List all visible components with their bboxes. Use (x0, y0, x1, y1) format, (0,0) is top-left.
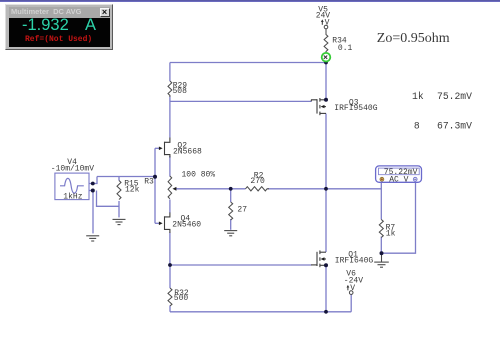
wire R15 bottom lead (118, 201, 120, 217)
wire V4 minus to ground (92, 191, 94, 234)
node R7 ground (380, 251, 384, 255)
transistor Q4 2N5460 (159, 213, 170, 234)
wire R32 top lead (169, 265, 171, 288)
wire V4 plus jog (89, 177, 97, 184)
wire V4 minus to R15 bottom (97, 191, 120, 207)
ground (V4 minus) (86, 236, 99, 241)
transistor Q3 IRFI9540G (311, 98, 326, 115)
svg-text:270: 270 (250, 177, 265, 186)
wire R7 bottom lead (380, 237, 382, 253)
wire R29 bottom to Q2 drain (169, 97, 171, 138)
svg-text:0.1: 0.1 (338, 44, 353, 53)
wire Q4 source down (169, 233, 171, 266)
node Q1 source (324, 263, 328, 267)
wire V4 minus stub (89, 190, 93, 192)
wire R3 bottom to Q4 drain (169, 200, 171, 214)
power V6 terminal circle (349, 291, 353, 295)
top window blue bar (0, 0, 500, 2)
wire top rail (170, 62, 326, 64)
svg-text:2N5460: 2N5460 (172, 221, 201, 230)
svg-text:IRFI9540G: IRFI9540G (334, 104, 377, 113)
wire node Q4source-Q1gate (170, 264, 312, 266)
wire R32 bottom lead (169, 306, 171, 312)
schematic text labels (51, 5, 396, 302)
R3 wiper arrow (173, 187, 177, 191)
svg-text:V: V (325, 18, 330, 27)
svg-text:75.2mV: 75.2mV (437, 91, 472, 102)
svg-text:1k: 1k (412, 91, 424, 102)
AC source V4 (55, 173, 89, 200)
resistor 27 (229, 202, 233, 220)
junction node dots (91, 61, 384, 314)
svg-text:12k: 12k (125, 186, 140, 195)
svg-text:R3: R3 (144, 178, 154, 187)
svg-text:67.3mV: 67.3mV (437, 120, 472, 131)
resistor R29 508 (168, 81, 172, 97)
resistor R32 500 (168, 288, 172, 306)
wire R3 wiper to R2 (176, 188, 246, 190)
wire R15 top lead (118, 177, 120, 181)
wire main bus probe to Q3 (325, 63, 327, 100)
svg-text:8: 8 (414, 120, 420, 131)
node Q3 drain (324, 98, 328, 102)
transistor Q1 IRFI640G (311, 250, 326, 267)
wire R29 top lead (169, 63, 171, 82)
wire output node to voltmeter (326, 188, 381, 190)
svg-text:V: V (350, 284, 355, 293)
node R32 top (168, 263, 172, 267)
svg-text:IRFI640G: IRFI640G (335, 257, 374, 266)
power V5 arrow (321, 19, 324, 24)
node gate bus (153, 175, 157, 179)
wire main bus Q3 to Q1 (325, 114, 327, 253)
node resistor27 top (229, 187, 233, 191)
svg-text:100 80%: 100 80% (182, 170, 216, 179)
wire voltmeter minus lead (382, 183, 416, 254)
power V6 arrow (347, 285, 350, 290)
resistor R34 0.1 (324, 29, 328, 54)
svg-text:2N5668: 2N5668 (173, 148, 202, 157)
wire node R29-Q3gate (170, 100, 312, 102)
svg-text:1k: 1k (386, 230, 396, 239)
wire resistor27 bottom lead (230, 219, 232, 230)
svg-text:Zo=0.95ohm: Zo=0.95ohm (377, 31, 450, 46)
wire R2 to bus (268, 188, 327, 190)
wire V6 lead (350, 294, 352, 312)
wire Q4 gate stub (155, 222, 159, 224)
wire main bus Q1 to bottom rail (325, 265, 327, 312)
wire resistor27 top lead (230, 189, 232, 202)
resistor R2 270 (246, 187, 270, 191)
wire Q2 gate stub (155, 147, 159, 149)
node bottom rail (324, 310, 328, 314)
svg-text:500: 500 (174, 294, 189, 303)
svg-text:-10m/10mV: -10m/10mV (51, 164, 94, 173)
power V5 terminal circle (324, 25, 328, 29)
transistor Q2 2N5668 (159, 138, 170, 158)
voltmeter 75.22mV AC V (376, 166, 422, 185)
ground (resistor 27) (224, 231, 237, 236)
ground (R7 / voltmeter return) (374, 255, 389, 268)
wire bottom rail (170, 311, 351, 313)
svg-text:508: 508 (173, 87, 188, 96)
node V4 plus (91, 182, 95, 186)
node output (324, 187, 328, 191)
multimeter instrument window (5, 4, 113, 50)
svg-text:AC V: AC V (389, 175, 408, 184)
wire Q2 source to R3 top (169, 156, 171, 177)
potentiometer R3 (168, 176, 172, 199)
wire gate bus Q2-Q4 (154, 148, 156, 223)
svg-text:27: 27 (237, 205, 247, 214)
resistor R7 1k (379, 220, 383, 238)
current probe (322, 53, 331, 62)
wire voltmeter plus lead (380, 183, 382, 220)
wire V4 plus to gate bus (97, 176, 155, 178)
node probe junction (324, 61, 328, 65)
node V4 minus (91, 189, 95, 193)
resistor R15 12k (117, 181, 121, 200)
svg-text:1kHz: 1kHz (63, 192, 82, 201)
ground (R15) (113, 219, 126, 224)
